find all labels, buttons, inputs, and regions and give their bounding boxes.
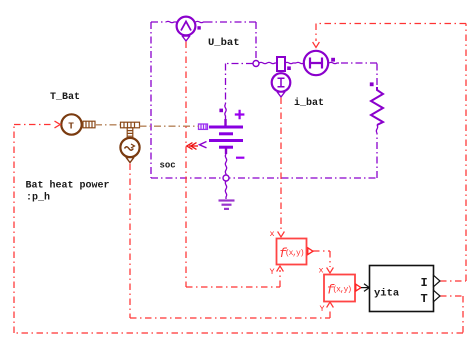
- svg-text:Bat heat power: Bat heat power: [26, 180, 110, 192]
- battery plus label: [235, 110, 245, 120]
- temperature source T_Bat: [61, 114, 81, 134]
- wire: resistor bottom pin squiggle: [376, 125, 377, 133]
- wire: battery plus pin squiggle: [225, 104, 226, 119]
- soc red arrow: [189, 145, 198, 147]
- svg-text:T: T: [421, 292, 428, 306]
- svg-text:Y: Y: [270, 267, 275, 277]
- wire: resistor top to corner, left to current source: [339, 63, 377, 85]
- wire: purple net right edge up to resistor: [376, 133, 378, 178]
- svg-text:i_bat: i_bat: [294, 97, 324, 109]
- battery B1 plates: [209, 127, 243, 147]
- wire: purple net left edge down: [150, 22, 152, 178]
- svg-text:(x,y): (x,y): [285, 249, 305, 258]
- wire: purple net top edge from rect corner to voltage sensor: [151, 21, 177, 22]
- svg-text:yita: yita: [374, 288, 400, 300]
- wire: tan heat wire tee to battery heat port: [140, 125, 199, 127]
- wire: tan heat wire T_Bat to tee: [95, 124, 120, 126]
- table block f1 (CombiTable2D): [270, 229, 314, 277]
- wire: red yita I output loop to current source: [316, 24, 466, 282]
- current source U1 (signal current, H symbol): [304, 51, 335, 75]
- resistor R (battery internal) zigzag: [371, 87, 383, 125]
- svg-text:soc: soc: [160, 161, 176, 171]
- battery minus label: [236, 157, 244, 159]
- wire: red heat power signal down, right, up into f2 y-input: [130, 164, 330, 319]
- block yita: [370, 266, 441, 312]
- battery heat port connector (hatched): [199, 124, 208, 129]
- wire: purple net bottom edge: [151, 177, 377, 179]
- wire: junction to ground symbol: [225, 181, 226, 199]
- svg-text:x: x: [270, 229, 275, 239]
- wire: red f1 output to f2 x-input: [313, 251, 330, 267]
- svg-text:Y: Y: [320, 304, 325, 314]
- heat flow sensor: [120, 138, 139, 163]
- wire: red U_bat signal down, right, up into f1 y-input: [186, 42, 280, 288]
- svg-text:U_bat: U_bat: [208, 37, 240, 49]
- node: ground junction open circle: [223, 175, 229, 181]
- T_Bat right hatched connector: [83, 121, 95, 128]
- ground symbol: [219, 201, 235, 209]
- wire: red yita T output loop to T_Bat: [14, 125, 463, 334]
- svg-text::p_h: :p_h: [26, 192, 50, 204]
- current sensor i_bat (rect on wire + circle with I): [259, 57, 296, 97]
- wire: junction left to corner, down to battery plus pin: [226, 64, 254, 105]
- table block f2 (CombiTable2D): [319, 266, 362, 315]
- svg-text:T_Bat: T_Bat: [50, 92, 80, 103]
- node junction (open circle) on wire: [253, 61, 259, 67]
- battery soc output pin (chevron): [200, 142, 207, 148]
- wire: red i_bat signal down into f1 x-input: [280, 98, 282, 233]
- heat tee connector (hatched): [121, 122, 140, 138]
- svg-text:x: x: [319, 266, 324, 276]
- black arrow f2 output into yita: [361, 287, 369, 289]
- wire: purple net, voltage sensor right pin to corner and down to junction: [196, 21, 257, 60]
- svg-text:T: T: [68, 121, 74, 132]
- svg-text:(x,y): (x,y): [333, 286, 353, 295]
- wire: battery minus stub and squiggle to ground node: [225, 147, 227, 154]
- wire: current source right pin squiggle: [329, 62, 339, 63]
- voltage sensor U_bat: [177, 17, 201, 41]
- node marker near resistor top: [370, 82, 374, 86]
- wire: current source left pin squiggle: [296, 62, 304, 63]
- node marker near battery top: [219, 109, 223, 113]
- svg-text:I: I: [421, 276, 428, 290]
